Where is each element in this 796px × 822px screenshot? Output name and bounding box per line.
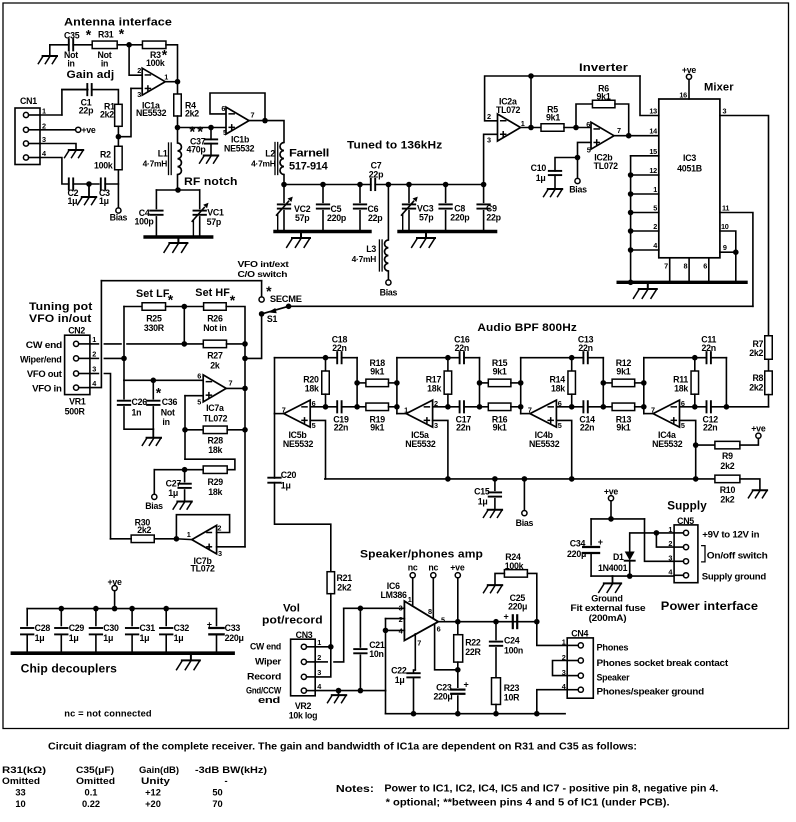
svg-text:9k1: 9k1 bbox=[616, 367, 630, 377]
svg-text:1: 1 bbox=[187, 530, 191, 539]
svg-text:2k2: 2k2 bbox=[100, 110, 114, 120]
svg-text:18k: 18k bbox=[551, 384, 565, 394]
svg-text:*: * bbox=[168, 292, 174, 308]
svg-text:Vol: Vol bbox=[283, 603, 300, 615]
svg-text:1μ: 1μ bbox=[536, 173, 546, 183]
svg-text:22n: 22n bbox=[578, 343, 592, 353]
svg-text:C10: C10 bbox=[531, 163, 547, 173]
svg-text:3: 3 bbox=[434, 421, 438, 430]
svg-text:4·7mH: 4·7mH bbox=[352, 254, 377, 264]
svg-text:6: 6 bbox=[221, 104, 225, 113]
svg-text:2: 2 bbox=[217, 524, 221, 533]
svg-text:CW end: CW end bbox=[26, 340, 62, 350]
svg-text:-3dB BW(kHz): -3dB BW(kHz) bbox=[195, 765, 267, 775]
svg-text:2: 2 bbox=[317, 653, 321, 662]
svg-text:+ve: +ve bbox=[604, 486, 619, 496]
svg-text:18k: 18k bbox=[208, 445, 222, 455]
svg-text:2: 2 bbox=[487, 112, 491, 121]
svg-text:L1: L1 bbox=[158, 149, 168, 159]
svg-text:Not: Not bbox=[161, 407, 175, 417]
svg-text:3: 3 bbox=[317, 668, 321, 677]
svg-text:16: 16 bbox=[679, 91, 687, 100]
svg-text:100k: 100k bbox=[146, 58, 165, 68]
svg-text:C20: C20 bbox=[281, 470, 297, 480]
svg-text:7: 7 bbox=[528, 406, 532, 415]
svg-text:9k1: 9k1 bbox=[546, 113, 560, 123]
svg-text:Phones socket break contact: Phones socket break contact bbox=[597, 658, 729, 669]
svg-text:10R: 10R bbox=[504, 693, 520, 703]
svg-text:1n: 1n bbox=[132, 407, 142, 417]
svg-text:9k1: 9k1 bbox=[493, 367, 507, 377]
svg-text:in: in bbox=[162, 417, 169, 427]
svg-text:15: 15 bbox=[649, 147, 657, 156]
svg-text:0.22: 0.22 bbox=[82, 799, 100, 809]
svg-text:IC7a: IC7a bbox=[206, 403, 224, 413]
svg-text:18k: 18k bbox=[674, 384, 688, 394]
svg-text:9k1: 9k1 bbox=[493, 423, 507, 433]
svg-text:2k2: 2k2 bbox=[137, 525, 151, 535]
svg-text:22n: 22n bbox=[332, 343, 346, 353]
svg-text:1: 1 bbox=[164, 73, 168, 82]
svg-text:4051B: 4051B bbox=[677, 163, 702, 173]
svg-text:1μ: 1μ bbox=[69, 633, 79, 643]
svg-text:5: 5 bbox=[312, 421, 316, 430]
svg-text:9k1: 9k1 bbox=[597, 92, 611, 102]
svg-text:22p: 22p bbox=[486, 212, 501, 222]
svg-text:5: 5 bbox=[681, 421, 685, 430]
svg-text:3: 3 bbox=[723, 107, 727, 116]
svg-text:VR2: VR2 bbox=[295, 701, 312, 711]
svg-text:R22: R22 bbox=[465, 638, 481, 648]
svg-text:RF notch: RF notch bbox=[184, 176, 238, 188]
svg-text:22p: 22p bbox=[368, 213, 383, 223]
svg-text:10: 10 bbox=[15, 799, 25, 809]
svg-text:100k: 100k bbox=[94, 161, 113, 171]
svg-text:6: 6 bbox=[312, 399, 316, 408]
svg-text:57p: 57p bbox=[419, 212, 434, 222]
svg-text:22n: 22n bbox=[701, 343, 715, 353]
svg-text:220μ: 220μ bbox=[567, 549, 586, 559]
svg-text:+9V to 12V in: +9V to 12V in bbox=[702, 529, 759, 540]
svg-text:+ve: +ve bbox=[450, 563, 465, 573]
svg-text:Phones/speaker ground: Phones/speaker ground bbox=[597, 686, 705, 697]
svg-text:C33: C33 bbox=[225, 623, 241, 633]
svg-text:1: 1 bbox=[42, 107, 46, 116]
svg-text:1: 1 bbox=[653, 185, 657, 194]
svg-text:Tuning pot: Tuning pot bbox=[29, 301, 93, 313]
svg-text:L3: L3 bbox=[366, 244, 376, 254]
svg-text:C29: C29 bbox=[69, 623, 85, 633]
svg-text:NE5532: NE5532 bbox=[652, 439, 683, 449]
svg-text:5: 5 bbox=[197, 398, 201, 407]
svg-text:2k2: 2k2 bbox=[720, 495, 734, 505]
svg-text:2k2: 2k2 bbox=[749, 348, 763, 358]
svg-text:+ve: +ve bbox=[81, 125, 96, 135]
svg-text:LM386: LM386 bbox=[381, 590, 407, 600]
svg-text:9: 9 bbox=[723, 243, 727, 252]
svg-text:57p: 57p bbox=[295, 213, 310, 223]
svg-text:C30: C30 bbox=[103, 623, 119, 633]
svg-text:18k: 18k bbox=[427, 384, 441, 394]
svg-text:6: 6 bbox=[197, 372, 201, 381]
svg-text:nc = not connected: nc = not connected bbox=[64, 708, 151, 718]
svg-text:+: + bbox=[207, 620, 212, 630]
svg-text:4·7mH: 4·7mH bbox=[143, 159, 168, 169]
svg-text:NE5532: NE5532 bbox=[405, 439, 436, 449]
svg-text:+12: +12 bbox=[145, 788, 161, 798]
svg-text:Bias: Bias bbox=[516, 518, 534, 528]
svg-text:22n: 22n bbox=[456, 423, 470, 433]
svg-text:220μ: 220μ bbox=[508, 601, 527, 611]
svg-text:6: 6 bbox=[681, 399, 685, 408]
svg-text:22p: 22p bbox=[369, 169, 384, 179]
svg-text:Audio BPF 800Hz: Audio BPF 800Hz bbox=[477, 322, 577, 334]
svg-text:Wiper: Wiper bbox=[255, 656, 282, 666]
svg-text:pot/record: pot/record bbox=[262, 615, 323, 627]
svg-text:50: 50 bbox=[212, 788, 222, 798]
svg-text:330R: 330R bbox=[144, 323, 165, 333]
svg-text:Bias: Bias bbox=[380, 288, 398, 298]
svg-text:R29: R29 bbox=[208, 477, 224, 487]
svg-text:22n: 22n bbox=[334, 423, 348, 433]
svg-text:NE5532: NE5532 bbox=[283, 439, 314, 449]
svg-text:NE5532: NE5532 bbox=[529, 439, 560, 449]
svg-text:NE5532: NE5532 bbox=[136, 108, 167, 118]
svg-text:5: 5 bbox=[441, 615, 445, 624]
svg-text:Wiper/end: Wiper/end bbox=[20, 355, 62, 365]
svg-text:22n: 22n bbox=[580, 423, 594, 433]
svg-text:Circuit diagram of the complet: Circuit diagram of the complete receiver… bbox=[48, 742, 637, 753]
svg-text:Supply: Supply bbox=[667, 499, 707, 513]
svg-text:+ve: +ve bbox=[751, 423, 766, 433]
svg-text:2: 2 bbox=[137, 66, 141, 75]
svg-text:nc: nc bbox=[428, 563, 438, 573]
svg-text:220p: 220p bbox=[327, 213, 347, 223]
svg-text:2: 2 bbox=[434, 399, 438, 408]
svg-text:7: 7 bbox=[251, 111, 255, 120]
svg-text:C22: C22 bbox=[391, 665, 407, 675]
svg-text:10: 10 bbox=[721, 222, 729, 231]
svg-text:7: 7 bbox=[617, 126, 621, 135]
svg-text:R23: R23 bbox=[504, 683, 520, 693]
svg-text:C34: C34 bbox=[570, 539, 586, 549]
svg-text:1μ: 1μ bbox=[281, 481, 291, 491]
svg-text:1: 1 bbox=[562, 638, 566, 647]
svg-text:0.1: 0.1 bbox=[85, 788, 98, 798]
svg-text:6: 6 bbox=[703, 261, 707, 270]
svg-text:1N4001: 1N4001 bbox=[598, 563, 628, 573]
svg-text:Speaker/phones amp: Speaker/phones amp bbox=[360, 549, 483, 561]
svg-text:9k1: 9k1 bbox=[616, 423, 630, 433]
svg-text:70: 70 bbox=[212, 799, 222, 809]
svg-text:12: 12 bbox=[649, 166, 657, 175]
svg-text:+: + bbox=[464, 680, 469, 690]
svg-text:R27: R27 bbox=[207, 351, 223, 361]
svg-text:Unity: Unity bbox=[141, 776, 171, 786]
svg-text:4·7mH: 4·7mH bbox=[251, 159, 276, 169]
svg-text:VFO in/out: VFO in/out bbox=[29, 313, 92, 325]
svg-text:Inverter: Inverter bbox=[579, 62, 629, 74]
svg-text:NE5532: NE5532 bbox=[224, 143, 255, 153]
svg-text:C36: C36 bbox=[162, 397, 178, 407]
svg-text:100p: 100p bbox=[134, 217, 154, 227]
svg-text:R31(kΩ): R31(kΩ) bbox=[2, 765, 46, 775]
svg-text:R2: R2 bbox=[100, 149, 111, 159]
svg-text:end: end bbox=[258, 695, 280, 705]
svg-text:Bias: Bias bbox=[145, 501, 163, 511]
svg-text:Farnell: Farnell bbox=[289, 148, 329, 160]
svg-text:100n: 100n bbox=[504, 645, 523, 655]
svg-text:+: + bbox=[598, 537, 603, 547]
svg-text:6: 6 bbox=[437, 625, 441, 634]
svg-text:2k2: 2k2 bbox=[720, 461, 734, 471]
svg-text:1: 1 bbox=[668, 525, 672, 534]
svg-text:1μ: 1μ bbox=[99, 196, 109, 206]
svg-text:On/off switch: On/off switch bbox=[707, 551, 768, 562]
svg-text:C24: C24 bbox=[504, 635, 520, 645]
svg-text:CN4: CN4 bbox=[571, 628, 588, 638]
svg-text:VFO out: VFO out bbox=[27, 369, 62, 379]
svg-text:Chip decouplers: Chip decouplers bbox=[21, 663, 117, 676]
svg-text:* optional; **between pins 4 a: * optional; **between pins 4 and 5 of IC… bbox=[386, 798, 670, 809]
svg-text:Notes:: Notes: bbox=[336, 784, 374, 795]
svg-text:Gain adj: Gain adj bbox=[67, 69, 115, 81]
svg-text:18k: 18k bbox=[305, 384, 319, 394]
svg-text:C28: C28 bbox=[35, 623, 51, 633]
svg-text:2k: 2k bbox=[210, 360, 220, 370]
svg-text:7: 7 bbox=[417, 638, 421, 647]
svg-text:Omitted: Omitted bbox=[76, 776, 115, 786]
svg-text:1μ: 1μ bbox=[478, 496, 488, 506]
svg-text:9k1: 9k1 bbox=[370, 367, 384, 377]
svg-text:220μ: 220μ bbox=[225, 633, 244, 643]
svg-text:22n: 22n bbox=[455, 343, 469, 353]
svg-text:CW end: CW end bbox=[250, 641, 281, 651]
svg-text:C26: C26 bbox=[132, 397, 148, 407]
svg-text:C32: C32 bbox=[174, 623, 190, 633]
svg-text:7: 7 bbox=[282, 406, 286, 415]
svg-text:5: 5 bbox=[558, 421, 562, 430]
svg-text:7: 7 bbox=[229, 378, 233, 387]
svg-text:1: 1 bbox=[408, 595, 412, 604]
svg-text:3: 3 bbox=[487, 136, 491, 145]
svg-text:TL072: TL072 bbox=[496, 105, 521, 115]
svg-text:C35(μF): C35(μF) bbox=[76, 765, 114, 775]
svg-text:2: 2 bbox=[399, 615, 403, 624]
svg-text:Power interface: Power interface bbox=[661, 599, 759, 613]
svg-text:6: 6 bbox=[558, 399, 562, 408]
svg-text:2: 2 bbox=[92, 350, 96, 359]
svg-text:Mixer: Mixer bbox=[704, 81, 734, 93]
svg-text:CN3: CN3 bbox=[296, 630, 313, 640]
svg-text:57p: 57p bbox=[207, 217, 222, 227]
svg-text:+20: +20 bbox=[145, 799, 161, 809]
svg-text:11: 11 bbox=[722, 204, 729, 213]
svg-text:2k2: 2k2 bbox=[337, 582, 351, 592]
svg-text:2: 2 bbox=[42, 121, 46, 130]
svg-text:470p: 470p bbox=[187, 145, 207, 155]
svg-text:3: 3 bbox=[399, 604, 403, 613]
svg-text:2k2: 2k2 bbox=[749, 383, 763, 393]
svg-text:Speaker: Speaker bbox=[597, 673, 630, 684]
svg-text:in: in bbox=[67, 58, 74, 68]
svg-text:Set LF: Set LF bbox=[136, 288, 170, 300]
svg-text:IC3: IC3 bbox=[683, 153, 696, 163]
svg-text:TL072: TL072 bbox=[191, 564, 216, 574]
svg-text:SECME: SECME bbox=[270, 294, 302, 304]
svg-text:nc: nc bbox=[408, 563, 418, 573]
svg-text:220μ: 220μ bbox=[433, 692, 452, 702]
svg-text:2: 2 bbox=[653, 222, 657, 231]
svg-text:+ve: +ve bbox=[682, 65, 697, 75]
svg-text:1: 1 bbox=[317, 638, 321, 647]
svg-text:8: 8 bbox=[428, 607, 432, 616]
svg-text:7: 7 bbox=[664, 261, 668, 270]
svg-text:1μ: 1μ bbox=[140, 633, 150, 643]
svg-text:Tuned to 136kHz: Tuned to 136kHz bbox=[347, 139, 443, 151]
svg-text:5: 5 bbox=[587, 146, 591, 155]
svg-text:1μ: 1μ bbox=[174, 633, 184, 643]
svg-text:10n: 10n bbox=[369, 649, 383, 659]
svg-text:Omitted: Omitted bbox=[2, 776, 40, 786]
svg-text:+: + bbox=[504, 612, 509, 622]
svg-text:R8: R8 bbox=[752, 373, 763, 383]
svg-text:500R: 500R bbox=[65, 406, 86, 416]
svg-text:220p: 220p bbox=[450, 212, 470, 222]
svg-text:22p: 22p bbox=[79, 105, 94, 115]
svg-text:R9: R9 bbox=[722, 451, 733, 461]
svg-text:VFO in: VFO in bbox=[32, 384, 62, 394]
svg-text:in: in bbox=[101, 58, 108, 68]
svg-text:S1: S1 bbox=[267, 314, 278, 324]
svg-text:14: 14 bbox=[649, 127, 658, 136]
svg-text:Record: Record bbox=[247, 671, 281, 681]
svg-text:CN1: CN1 bbox=[20, 96, 37, 106]
svg-text:-: - bbox=[224, 776, 227, 786]
svg-text:1μ: 1μ bbox=[68, 196, 78, 206]
svg-text:D1: D1 bbox=[613, 552, 624, 562]
svg-text:6: 6 bbox=[586, 120, 590, 129]
svg-text:3: 3 bbox=[668, 553, 672, 562]
svg-text:TL072: TL072 bbox=[203, 413, 228, 423]
svg-text:18k: 18k bbox=[208, 487, 222, 497]
svg-text:*: * bbox=[86, 26, 92, 42]
svg-text:3: 3 bbox=[218, 549, 222, 558]
svg-text:13: 13 bbox=[649, 107, 657, 116]
svg-text:Phones: Phones bbox=[597, 643, 629, 654]
svg-text:9k1: 9k1 bbox=[370, 423, 384, 433]
svg-text:C15: C15 bbox=[474, 486, 490, 496]
svg-text:1μ: 1μ bbox=[395, 675, 405, 685]
svg-text:C/O switch: C/O switch bbox=[238, 269, 288, 279]
svg-text:10k log: 10k log bbox=[289, 711, 318, 721]
svg-text:3: 3 bbox=[137, 90, 141, 99]
svg-text:3: 3 bbox=[42, 135, 46, 144]
svg-text:5: 5 bbox=[653, 204, 657, 213]
svg-text:7: 7 bbox=[651, 406, 655, 415]
svg-text:33: 33 bbox=[15, 788, 25, 798]
svg-text:L2: L2 bbox=[265, 149, 275, 159]
svg-text:2k2: 2k2 bbox=[185, 109, 199, 119]
svg-text:*: * bbox=[119, 25, 125, 41]
svg-text:8: 8 bbox=[683, 261, 687, 270]
svg-text:*: * bbox=[230, 292, 236, 308]
svg-text:C35: C35 bbox=[64, 31, 80, 41]
svg-text:1μ: 1μ bbox=[103, 633, 113, 643]
svg-text:Bias: Bias bbox=[569, 185, 587, 195]
svg-text:22R: 22R bbox=[465, 647, 481, 657]
svg-text:Bias: Bias bbox=[110, 213, 128, 223]
svg-text:CN2: CN2 bbox=[68, 325, 85, 335]
svg-text:22n: 22n bbox=[703, 423, 717, 433]
svg-text:R31: R31 bbox=[98, 30, 114, 40]
svg-text:1μ: 1μ bbox=[35, 633, 45, 643]
svg-text:VFO int/ext: VFO int/ext bbox=[238, 259, 289, 269]
svg-text:5: 5 bbox=[223, 128, 227, 137]
svg-text:VR1: VR1 bbox=[69, 396, 86, 406]
svg-text:C31: C31 bbox=[140, 623, 156, 633]
svg-text:Power to IC1, IC2, IC4, IC5 an: Power to IC1, IC2, IC4, IC5 and IC7 - po… bbox=[384, 784, 718, 795]
svg-text:(200mA): (200mA) bbox=[589, 613, 627, 624]
svg-text:R28: R28 bbox=[208, 436, 224, 446]
svg-text:Set HF: Set HF bbox=[195, 287, 230, 299]
svg-text:1: 1 bbox=[92, 335, 96, 344]
svg-text:1: 1 bbox=[521, 119, 525, 128]
svg-text:517-914: 517-914 bbox=[289, 161, 328, 173]
svg-text:Supply ground: Supply ground bbox=[702, 571, 767, 582]
svg-text:3: 3 bbox=[92, 365, 96, 374]
svg-text:1μ: 1μ bbox=[168, 488, 178, 498]
svg-text:1: 1 bbox=[404, 406, 408, 415]
svg-text:Gain(dB): Gain(dB) bbox=[139, 765, 179, 775]
svg-text:Not in: Not in bbox=[203, 323, 226, 333]
svg-text:TL072: TL072 bbox=[594, 161, 619, 171]
svg-text:2: 2 bbox=[668, 539, 672, 548]
